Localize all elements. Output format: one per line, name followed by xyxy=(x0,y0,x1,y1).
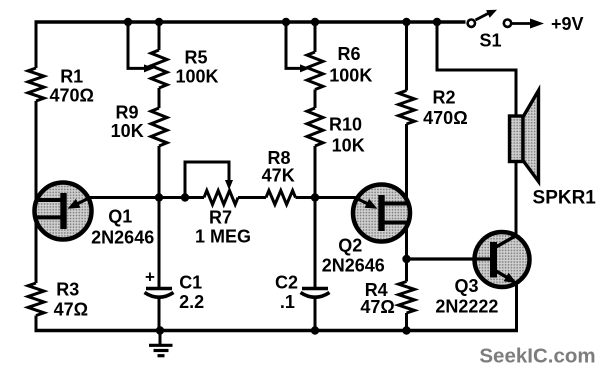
svg-text:S1: S1 xyxy=(479,30,501,50)
node ground rail / C1 xyxy=(156,326,164,334)
wire top rail to R5 xyxy=(158,22,161,50)
resistor R10 xyxy=(307,108,323,146)
wire Q1 emitter to R7 xyxy=(88,196,204,199)
ground xyxy=(149,331,173,356)
wire R6 to R10 xyxy=(314,90,317,109)
svg-text:47Ω: 47Ω xyxy=(360,297,394,317)
svg-text:R5: R5 xyxy=(184,48,207,68)
node emitter line / R7 bracket xyxy=(181,193,189,201)
wire C1 to ground rail xyxy=(158,297,161,331)
transistor Q2 xyxy=(322,185,410,276)
resistor R4 xyxy=(399,282,415,314)
switch S1 xyxy=(468,10,512,51)
svg-text:SeekIC.com: SeekIC.com xyxy=(479,345,595,368)
node Q3 base / R4 xyxy=(402,255,410,263)
wire C2 to ground rail xyxy=(314,297,317,331)
wire bottom ground rail xyxy=(35,329,519,332)
svg-text:R7: R7 xyxy=(209,208,232,228)
wire R8 to Q2 emitter xyxy=(296,196,357,199)
wire R4 to ground rail xyxy=(405,313,408,331)
node top rail / speaker branch xyxy=(433,18,441,26)
svg-text:2N2222: 2N2222 xyxy=(435,297,498,317)
svg-text:1 MEG: 1 MEG xyxy=(195,227,251,247)
wire to +9V with arrow xyxy=(512,22,531,25)
node ground rail / R4 xyxy=(402,326,410,334)
node top rail / R2 xyxy=(402,18,410,26)
transistor Q1 xyxy=(35,183,155,248)
svg-text:2N2646: 2N2646 xyxy=(91,228,154,248)
node ground rail / C2 xyxy=(311,326,319,334)
svg-text:Q3: Q3 xyxy=(454,276,478,296)
svg-text:100K: 100K xyxy=(175,67,218,87)
svg-text:47Ω: 47Ω xyxy=(54,300,88,320)
svg-text:C2: C2 xyxy=(275,273,298,293)
node emitter line / R9-C1 xyxy=(155,193,163,201)
resistor R3 xyxy=(28,283,44,316)
resistor R1 xyxy=(28,68,44,101)
resistor R2 xyxy=(399,91,415,125)
svg-text:SPKR1: SPKR1 xyxy=(533,188,597,209)
node top rail / R5 wiper xyxy=(124,18,132,26)
capacitor C2 xyxy=(302,287,328,291)
wire top supply rail xyxy=(35,20,466,23)
node emitter line / R10-C2 xyxy=(311,193,319,201)
svg-text:+: + xyxy=(145,268,155,287)
wire Q3 emitter to ground rail xyxy=(515,283,518,332)
svg-text:470Ω: 470Ω xyxy=(423,108,467,128)
node top rail / R6 xyxy=(311,18,319,26)
transistor Q3 xyxy=(407,232,530,317)
wire top rail to R2 xyxy=(405,22,408,91)
svg-text:R2: R2 xyxy=(432,88,455,108)
svg-text:Q2: Q2 xyxy=(338,236,362,256)
svg-text:R3: R3 xyxy=(56,280,79,300)
svg-text:2.2: 2.2 xyxy=(179,292,204,312)
node top rail / R5 xyxy=(155,18,163,26)
node top rail / R6 wiper xyxy=(282,18,290,26)
svg-text:100K: 100K xyxy=(329,66,372,86)
svg-text:R10: R10 xyxy=(329,115,362,135)
svg-text:10K: 10K xyxy=(111,121,144,141)
svg-text:R1: R1 xyxy=(60,67,83,87)
resistor R9 xyxy=(151,108,167,146)
svg-text:Q1: Q1 xyxy=(108,207,132,227)
wire R7 to R8 xyxy=(238,196,266,199)
wire Q3 base from R4 node xyxy=(407,257,491,260)
wire R2 down past Q2 bases to R4 xyxy=(405,124,408,282)
resistor R8 xyxy=(266,191,296,205)
wire left rail bottom (R3 to ground rail) xyxy=(35,316,38,333)
resistor R5 (pot body) xyxy=(151,50,167,88)
wire left rail upper (top rail to R1) xyxy=(35,22,38,68)
speaker SPKR1 xyxy=(510,91,597,209)
resistor R6 (pot body) xyxy=(307,52,323,90)
svg-text:R9: R9 xyxy=(115,103,138,123)
wire speaker to Q3 collector xyxy=(515,162,518,239)
svg-text:2N2646: 2N2646 xyxy=(322,256,385,276)
wire top rail to R6 xyxy=(314,22,317,52)
wire left rail between Q1 and R3 xyxy=(35,217,38,283)
svg-text:.1: .1 xyxy=(280,292,295,312)
resistor R7 (pot body) xyxy=(204,191,238,205)
wire left rail between R1 and Q1 xyxy=(35,101,38,200)
svg-text:+9V: +9V xyxy=(551,14,584,34)
wire R10 down through emitter node to C2 xyxy=(314,146,317,288)
svg-text:10K: 10K xyxy=(332,136,365,156)
wire R5 wiper from top rail xyxy=(128,22,146,68)
svg-text:R6: R6 xyxy=(337,44,360,64)
wire R5 to R9 xyxy=(158,88,161,108)
svg-text:470Ω: 470Ω xyxy=(49,86,93,106)
svg-text:C1: C1 xyxy=(179,273,202,293)
wire switch-node branch down and right to speaker xyxy=(437,22,516,117)
wire R7 wiper bracket xyxy=(185,162,229,198)
svg-text:47K: 47K xyxy=(262,166,295,186)
wire R6 wiper from top rail xyxy=(286,22,302,68)
wire R9 down to emitter node and C1 xyxy=(158,146,161,288)
